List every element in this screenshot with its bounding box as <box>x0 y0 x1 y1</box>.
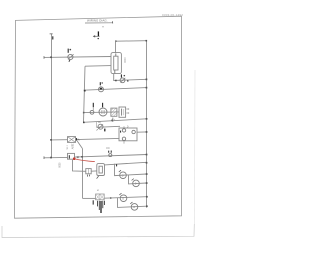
node rowA-bus <box>146 162 148 164</box>
node rung157 x82 junction <box>81 156 83 158</box>
heater label tick <box>97 189 99 191</box>
svg-text:00: 00 <box>127 112 130 115</box>
thermostat box TH <box>111 53 121 74</box>
rung1 left terminal <box>43 56 45 59</box>
node top-right <box>146 40 148 42</box>
title underline <box>85 22 112 24</box>
run capacitor hatch <box>111 108 117 116</box>
wire switch drop L <box>73 160 86 172</box>
node A1-bus <box>146 173 148 175</box>
wire plug drop <box>115 41 117 52</box>
fuse right tick <box>76 138 78 141</box>
node heater wire tick <box>110 197 111 199</box>
fan motor FM <box>99 82 104 92</box>
node fuse row-bus left <box>50 139 52 141</box>
svg-text:0000: 0000 <box>58 163 60 169</box>
node compressor row left <box>83 112 85 114</box>
timer left pin tick <box>120 131 122 133</box>
title small dot <box>102 26 103 27</box>
pin arrow 2 <box>102 103 104 108</box>
switch box S1 <box>68 153 75 159</box>
node rung157-bus right <box>146 154 148 156</box>
fan motor B1 <box>119 193 126 201</box>
svg-text:0.0A: 0.0A <box>66 145 69 150</box>
heater lead stub <box>92 200 94 204</box>
node fan row-bus <box>146 87 148 89</box>
defrost timer DT <box>119 126 137 143</box>
node fan row left <box>84 90 86 92</box>
fuse row wire to timer <box>76 138 120 139</box>
wire row A to bus <box>105 162 147 165</box>
wire thermostat drop to lamp row <box>114 73 147 80</box>
left bus L <box>51 34 53 158</box>
door switch DS <box>97 164 105 179</box>
label above row A <box>116 164 118 166</box>
lamp B2 <box>130 202 138 210</box>
thermal fuse TF <box>97 122 121 130</box>
node rung157-bus left <box>50 157 52 159</box>
node rung1-bus <box>50 56 52 58</box>
svg-text:250V: 250V <box>70 144 73 150</box>
defrost heater comb <box>98 201 105 210</box>
fuse label dark <box>104 129 106 132</box>
wire vertical drop to bottom <box>82 149 84 199</box>
connector block CN2 <box>86 169 91 177</box>
svg-text:0303-00-1492: 0303-00-1492 <box>162 13 183 17</box>
pen scribble gray <box>77 156 79 158</box>
node timer-bus <box>146 131 148 133</box>
page edge right faint <box>193 70 196 224</box>
fan motor A1 <box>119 170 126 178</box>
svg-text:WIRING DIAG.: WIRING DIAG. <box>87 19 108 23</box>
fuse F1 <box>68 137 76 143</box>
heater connector block HX <box>96 194 105 200</box>
schematic border frame <box>15 16 182 218</box>
wire drop to A2 <box>129 175 147 184</box>
left bus terminal <box>50 33 53 35</box>
node B2-bus <box>146 205 148 207</box>
right bus R <box>146 41 148 208</box>
connector bubble CN <box>109 151 112 157</box>
wire timer to bus <box>137 131 147 133</box>
fan row wire <box>84 88 147 91</box>
lamp LP1 <box>68 49 74 62</box>
svg-text:0: 0 <box>122 196 124 200</box>
page edge shadow bottom <box>2 224 194 238</box>
svg-text:000: 000 <box>106 148 111 150</box>
lamp A2 <box>132 179 140 187</box>
node box bottom corner <box>146 118 148 120</box>
rung 1 wire <box>44 56 111 59</box>
node lamp row-bus <box>146 79 148 81</box>
node top-left tick <box>115 40 117 42</box>
node A2-bus <box>146 182 148 184</box>
start relay RY <box>119 107 126 117</box>
power plug P1 <box>93 31 99 39</box>
lamp LP2 <box>120 74 128 82</box>
wire top rung to bus <box>116 40 147 43</box>
wire row B to bus <box>104 197 146 199</box>
node lamp row left tick <box>115 80 116 82</box>
wire connector to door switch <box>91 170 97 172</box>
red annotation dot <box>73 157 76 160</box>
rung 157 wire right <box>75 155 147 158</box>
node rowB-bus <box>146 196 148 198</box>
left bus label N <box>52 36 54 39</box>
svg-text:00: 00 <box>127 108 130 111</box>
relay bottom pin tick <box>111 120 113 122</box>
heater comb dark core <box>100 201 102 213</box>
wire relay drop to box bottom <box>112 118 114 122</box>
pin arrow 1 <box>92 103 94 111</box>
rung 157 wire left <box>44 156 68 158</box>
red annotation stroke <box>75 159 94 162</box>
fuse row wire <box>51 139 68 141</box>
compressor row wire <box>84 111 119 114</box>
wire bottom corner to heater block <box>83 197 96 199</box>
wire diagonal from fuse <box>77 140 83 148</box>
wire drop to B2 <box>118 198 147 207</box>
compressor motor M <box>99 108 107 116</box>
compartment box outline <box>84 66 147 123</box>
rung157 left terminal <box>43 156 45 159</box>
overload protector OL <box>90 110 94 114</box>
wire drop to A1 <box>115 164 147 176</box>
svg-text:0000: 0000 <box>123 58 126 64</box>
